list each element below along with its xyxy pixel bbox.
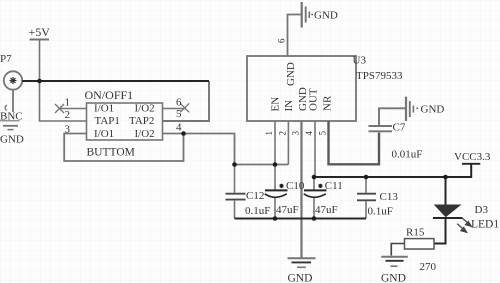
svg-text:+5V: +5V: [29, 25, 51, 39]
svg-text:6: 6: [176, 96, 182, 108]
svg-text:5: 5: [176, 108, 182, 120]
svg-text:U3: U3: [353, 55, 367, 67]
svg-text:0.01uF: 0.01uF: [392, 149, 423, 161]
svg-text:GND: GND: [314, 10, 338, 22]
svg-text:BNC: BNC: [0, 110, 23, 122]
svg-text:C7: C7: [393, 122, 406, 134]
svg-text:1: 1: [264, 131, 274, 136]
svg-text:TAP2: TAP2: [129, 115, 154, 127]
svg-text:R15: R15: [406, 227, 425, 239]
svg-text:0.1uF: 0.1uF: [368, 206, 393, 218]
svg-text:D3: D3: [475, 204, 489, 216]
svg-text:GND: GND: [421, 104, 445, 116]
svg-text:I/O2: I/O2: [135, 102, 155, 114]
svg-text:0.1uF: 0.1uF: [245, 205, 270, 217]
svg-text:C10: C10: [286, 180, 305, 192]
svg-text:2: 2: [65, 109, 71, 121]
svg-text:NR: NR: [322, 95, 334, 111]
svg-text:TAP1: TAP1: [95, 115, 120, 127]
svg-text:4: 4: [176, 121, 182, 133]
svg-text:4: 4: [304, 131, 314, 136]
svg-text:GND: GND: [288, 273, 313, 283]
svg-text:LED1: LED1: [471, 219, 499, 231]
svg-text:GND: GND: [381, 273, 406, 283]
svg-text:GND: GND: [285, 62, 297, 86]
svg-text:C11: C11: [325, 180, 343, 192]
svg-text:C12: C12: [246, 190, 264, 202]
svg-text:1: 1: [65, 96, 71, 108]
svg-text:6: 6: [277, 38, 287, 43]
svg-text:3: 3: [291, 131, 301, 136]
svg-text:3: 3: [65, 124, 71, 136]
svg-text:C13: C13: [380, 191, 399, 203]
svg-text:I/O1: I/O1: [94, 128, 114, 140]
svg-text:I/O2: I/O2: [135, 128, 155, 140]
svg-text:2: 2: [278, 131, 288, 136]
svg-text:IN: IN: [283, 100, 295, 112]
svg-text:EN: EN: [270, 97, 282, 112]
svg-text:5: 5: [318, 131, 328, 136]
svg-text:I/O1: I/O1: [94, 102, 114, 114]
svg-text:GND: GND: [0, 134, 24, 146]
svg-text:VCC3.3: VCC3.3: [454, 151, 491, 163]
svg-text:OUT: OUT: [308, 88, 320, 111]
svg-text:TPS79533: TPS79533: [356, 70, 403, 82]
svg-text:270: 270: [420, 261, 437, 273]
svg-text:BUTTOM: BUTTOM: [87, 147, 135, 159]
svg-text:47uF: 47uF: [276, 204, 299, 216]
svg-text:P7: P7: [0, 53, 12, 65]
svg-text:47uF: 47uF: [315, 204, 338, 216]
svg-text:ON/OFF1: ON/OFF1: [85, 88, 134, 102]
